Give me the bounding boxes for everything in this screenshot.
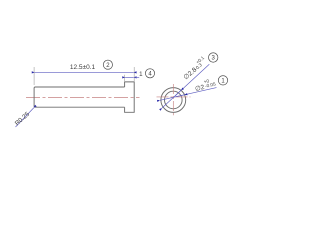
extension line head left edge (1 dim) (124, 75, 126, 81)
svg-text:12.5±0.1: 12.5±0.1 (70, 64, 96, 71)
pin body (side view) (34, 87, 125, 107)
balloon 1 (218, 76, 227, 85)
centerline side view (26, 97, 140, 99)
dia 2.8 arrow on circle (175, 90, 181, 96)
dimension line 1 (head width) arrows inside (125, 76, 134, 78)
dimension line 12.5±0.1 (35, 71, 134, 73)
dia 2.8 text (180, 55, 209, 81)
extension line left (12.5 dim) (33, 67, 35, 85)
end view inner circle (165, 91, 183, 109)
dia 2.8 dimension line (162, 64, 209, 108)
balloon 2 (103, 60, 112, 69)
leader tail for 1 (134, 76, 139, 78)
svg-text:1: 1 (139, 71, 143, 78)
end view outer circle (161, 88, 186, 113)
dia 2 dimension line (160, 88, 217, 101)
crosshair vertical (172, 84, 174, 115)
balloon 3 (209, 53, 218, 62)
balloon 4 (145, 69, 154, 78)
pin head flange (side view) (125, 82, 135, 112)
extension line right (12.5 dim, head right edge) (133, 67, 135, 81)
dia 2 arrow on circle (176, 95, 185, 97)
crosshair horizontal (157, 96, 191, 98)
dia 2 text (194, 77, 217, 93)
R0.25 leader (16, 108, 34, 127)
